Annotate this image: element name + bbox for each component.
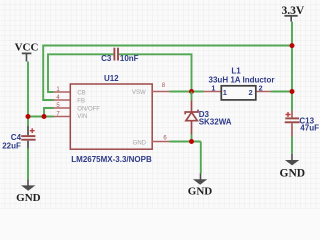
svg-text:C3: C3 <box>101 54 112 63</box>
svg-text:2: 2 <box>249 88 253 97</box>
wire CB net: pin 1 up to C3 left plate <box>48 54 113 92</box>
capacitor C3 <box>114 48 118 61</box>
junction VSW node <box>189 89 194 94</box>
wire 3.3V rail down to C13 <box>291 22 293 111</box>
wire VIN row (VCC to pin 7) <box>28 116 54 118</box>
svg-text:U12: U12 <box>104 74 119 83</box>
svg-text:1: 1 <box>223 88 227 97</box>
svg-text:2: 2 <box>259 84 263 93</box>
ground under C4 <box>16 180 41 204</box>
svg-text:22uF: 22uF <box>2 141 21 150</box>
svg-text:CB: CB <box>77 91 85 97</box>
junction D3 anode / GND net <box>189 139 194 144</box>
wire ON/OFF branch to VIN net <box>44 108 54 117</box>
wire FB net: pin 4 up and across to output node <box>43 46 292 101</box>
ground under C13 <box>280 154 306 179</box>
svg-text:GND: GND <box>133 141 147 147</box>
junction on VCC vertical at VIN row <box>26 114 31 119</box>
svg-text:VIN: VIN <box>77 114 87 120</box>
pin 4 FB stub <box>54 99 71 101</box>
capacitor C4 <box>21 126 35 149</box>
wire pin 6 GND to D3 anode <box>170 141 201 143</box>
wire C4 to ground <box>27 149 29 180</box>
junction FB joins output <box>290 43 295 48</box>
power flag 3.3V <box>282 5 305 22</box>
pin 7 VIN stub <box>54 116 71 118</box>
svg-text:VCC: VCC <box>15 42 39 54</box>
junction L1 output joins rail <box>290 89 295 94</box>
diode D3 <box>185 101 198 142</box>
svg-text:1: 1 <box>211 84 215 93</box>
wire L1 pin2 to output node <box>271 91 292 93</box>
wire VSW node down to D3 cathode <box>191 92 193 101</box>
wire C13 to ground <box>291 137 293 155</box>
junction ON/OFF joins VIN wire <box>42 114 47 119</box>
svg-text:ON/OFF: ON/OFF <box>77 106 100 112</box>
pin 8 VSW stub <box>152 91 170 93</box>
pin 1 CB stub <box>54 91 71 93</box>
svg-text:L1: L1 <box>231 67 241 76</box>
svg-text:VSW: VSW <box>132 90 146 96</box>
wire VSW to L1 pin1 <box>170 91 204 93</box>
svg-text:GND: GND <box>16 192 41 204</box>
svg-text:47uF: 47uF <box>300 124 319 133</box>
svg-text:FB: FB <box>77 98 85 104</box>
svg-text:10nF: 10nF <box>120 54 139 63</box>
capacitor C13 <box>285 111 300 137</box>
wire VCC vertical to C4 <box>27 62 29 127</box>
pin 6 GND stub <box>152 141 170 143</box>
svg-text:GND: GND <box>188 186 213 198</box>
ground under D3 <box>188 174 213 198</box>
svg-text:SK32WA: SK32WA <box>199 117 232 126</box>
wire down to GND symbol (D3) <box>200 142 202 174</box>
op IC U12 box <box>70 84 152 149</box>
svg-text:33uH 1A Inductor: 33uH 1A Inductor <box>209 75 275 84</box>
power flag VCC <box>15 42 39 62</box>
inductor L1 <box>204 86 272 100</box>
svg-text:LM2675MX-3.3/NOPB: LM2675MX-3.3/NOPB <box>71 155 152 164</box>
pin 5 ON/OFF stub <box>54 107 71 109</box>
svg-text:GND: GND <box>280 167 306 179</box>
wire C3 right plate to VSW node <box>119 54 192 91</box>
